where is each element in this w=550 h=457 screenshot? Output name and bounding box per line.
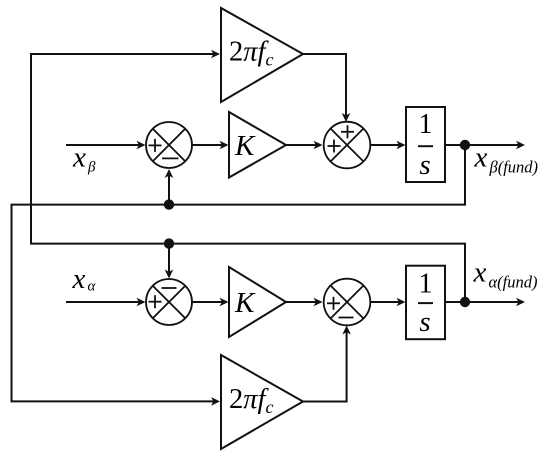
arrowhead into integrator (beta)	[397, 141, 406, 150]
arrowhead into S2 left	[314, 141, 323, 150]
wire: S4 to integrator (alpha)	[370, 301, 400, 303]
svg-text:β: β	[87, 160, 96, 176]
arrowhead into S3 top	[165, 270, 174, 279]
wire: integrator output to x_a(fund) arrow	[445, 301, 519, 303]
node: junction dot on lower feedback line	[164, 238, 174, 248]
wire: x_alpha input arrow	[66, 301, 140, 303]
gain block K (beta)	[229, 112, 286, 178]
gain block K (alpha)	[229, 267, 286, 337]
summing junction S4 (alpha integrator input)	[324, 279, 371, 326]
plus sign S4 left	[327, 297, 340, 310]
arrowhead into S1 left	[137, 141, 146, 150]
plus sign S3 left	[149, 295, 162, 308]
arrowhead into S1 bottom	[165, 169, 174, 178]
plus sign S2 left	[328, 140, 341, 153]
gain block G2 2pi fc (bottom)	[221, 355, 303, 449]
integrator block 1/s (beta)	[406, 107, 445, 182]
svg-text:1: 1	[419, 269, 433, 300]
wire: feedback from x_a(fund) up left side to top gain input	[31, 54, 465, 302]
arrowhead output beta	[516, 141, 525, 150]
summing junction S3 (alpha error)	[146, 279, 192, 325]
svg-text:K: K	[234, 287, 256, 319]
arrowhead into S2 top	[342, 113, 351, 122]
wire: feedback from x_b(fund) down left side to bottom gain input	[12, 145, 466, 401]
wire: stub from dot up into S1 bottom	[168, 176, 170, 205]
output x_beta(fund) label	[474, 141, 539, 176]
node: junction dot at x_a(fund)	[460, 297, 470, 307]
wire: x_beta input arrow	[66, 144, 140, 146]
minus sign S3 top	[162, 287, 177, 289]
input x_beta label	[72, 141, 96, 175]
svg-text:α: α	[88, 279, 97, 295]
minus sign S4 bottom	[339, 317, 354, 319]
svg-text:s: s	[419, 149, 430, 181]
wire: top gain output to summing junction S2 top	[303, 54, 346, 117]
arrowhead into integrator (alpha)	[397, 298, 406, 307]
arrowhead into S4 left	[314, 298, 323, 307]
svg-text:K: K	[234, 130, 256, 162]
integrator block 1/s (alpha)	[406, 266, 445, 340]
svg-text:x: x	[72, 263, 86, 295]
arrowhead output alpha	[516, 298, 525, 307]
svg-text:α(fund): α(fund)	[489, 273, 538, 292]
svg-text:β(fund): β(fund)	[489, 157, 539, 176]
minus sign S1 bottom	[162, 157, 179, 159]
wire: S2 to integrator (beta)	[370, 144, 400, 146]
svg-text:s: s	[419, 306, 430, 338]
svg-text:x: x	[474, 141, 488, 173]
gain block G1 2pi fc (top)	[221, 8, 303, 102]
wire: integrator output to x_b(fund) arrow	[445, 144, 519, 146]
node: junction dot on upper feedback line	[164, 199, 174, 209]
wire: S3 to K gain (alpha)	[191, 301, 223, 303]
wire: stub from dot down into S3 top	[168, 244, 170, 273]
plus sign S1 left	[149, 139, 162, 152]
summing junction S1 (beta error)	[146, 122, 192, 168]
node: junction dot at x_b(fund)	[460, 140, 470, 150]
svg-text:x: x	[473, 257, 487, 289]
wire: S1 to K gain (beta)	[191, 144, 223, 146]
arrowhead into S4 bottom	[342, 326, 351, 335]
plus sign S2 top	[341, 125, 354, 138]
arrowhead into K (alpha)	[220, 298, 229, 307]
svg-text:1: 1	[419, 109, 433, 140]
arrowhead into top gain block	[211, 50, 220, 59]
wire: K output to S2 (beta)	[286, 144, 317, 146]
wire: K output to S4 (alpha)	[286, 301, 317, 303]
arrowhead into K (beta)	[220, 141, 229, 150]
arrowhead into S3 left	[137, 298, 146, 307]
output x_alpha(fund) label	[473, 257, 538, 292]
svg-text:x: x	[72, 141, 86, 173]
arrowhead into bottom gain block	[211, 397, 220, 406]
wire: bottom gain output to summing junction S4 bottom	[303, 331, 347, 402]
input x_alpha label	[72, 263, 97, 295]
summing junction S2 (beta integrator input)	[324, 122, 371, 169]
